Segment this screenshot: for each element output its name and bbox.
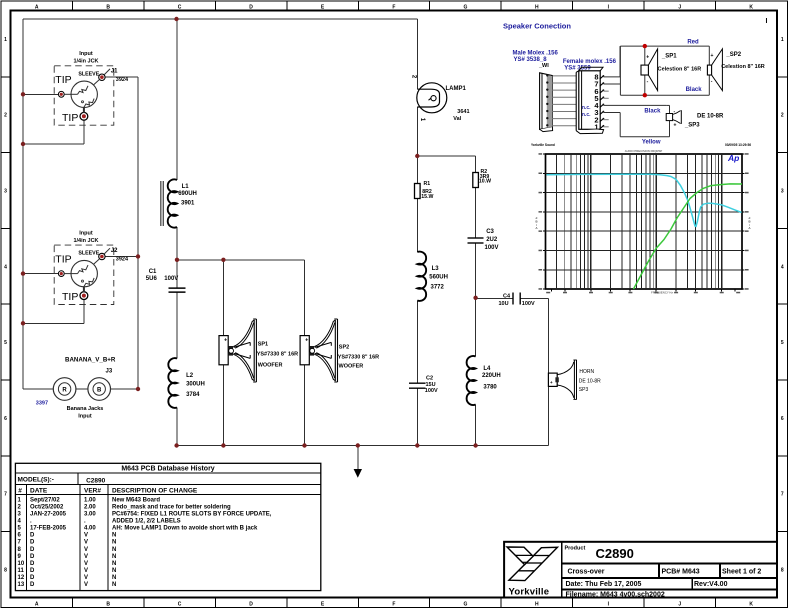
svg-text:C1: C1 (149, 269, 157, 275)
svg-text:G: G (463, 602, 467, 608)
svg-text:C3: C3 (486, 229, 494, 235)
svg-text:D: D (30, 547, 35, 553)
svg-text:B: B (97, 387, 102, 393)
svg-text:2: 2 (781, 113, 784, 119)
svg-text:Red: Red (687, 40, 699, 46)
svg-text:N: N (112, 582, 116, 588)
svg-text:+: + (550, 380, 553, 385)
svg-text:_WI: _WI (538, 63, 549, 69)
svg-text:7: 7 (781, 492, 784, 498)
svg-text:3780: 3780 (483, 385, 497, 391)
svg-text:LAMP1: LAMP1 (446, 86, 467, 92)
svg-text:-: - (711, 79, 713, 85)
svg-text:8: 8 (4, 568, 7, 574)
svg-text:10U: 10U (499, 301, 509, 307)
svg-text:B: B (106, 602, 110, 608)
svg-text:R: R (62, 387, 67, 393)
svg-text:V: V (84, 533, 88, 539)
svg-text:Input: Input (78, 414, 92, 420)
svg-text:4.00: 4.00 (84, 526, 96, 532)
svg-text:2: 2 (4, 113, 7, 119)
svg-text:3924: 3924 (116, 77, 129, 83)
svg-text:10.W: 10.W (479, 179, 491, 185)
svg-text:03/09/05 13:29:56: 03/09/05 13:29:56 (725, 143, 751, 147)
svg-text:4: 4 (781, 264, 784, 270)
svg-text:n.c.: n.c. (582, 112, 591, 118)
svg-text:DE 10-8R: DE 10-8R (579, 378, 601, 384)
svg-text:C: C (178, 4, 182, 10)
svg-text:Date: Thu Feb 17, 2005: Date: Thu Feb 17, 2005 (566, 581, 642, 588)
svg-text:E: E (321, 4, 325, 10)
svg-text:D: D (249, 602, 253, 608)
svg-text:8: 8 (781, 568, 784, 574)
svg-text:220UH: 220UH (482, 373, 501, 379)
svg-text:100V: 100V (164, 276, 178, 282)
svg-text:SP1: SP1 (258, 342, 268, 348)
svg-text:BANANA_V_B+R: BANANA_V_B+R (65, 356, 116, 363)
svg-text:2U2: 2U2 (486, 237, 498, 243)
svg-text:Yorkville Sound: Yorkville Sound (531, 143, 555, 147)
svg-text:7: 7 (4, 492, 7, 498)
svg-text:New M643 Board: New M643 Board (112, 497, 160, 503)
svg-text:TIP: TIP (62, 112, 78, 124)
svg-text:AH: Move LAMP1 Down to avoide: AH: Move LAMP1 Down to avoide short with… (112, 526, 258, 532)
svg-text:3784: 3784 (186, 392, 200, 398)
svg-text:TIP: TIP (62, 291, 78, 303)
svg-text:100V: 100V (485, 245, 499, 251)
svg-text:Sept/27/02: Sept/27/02 (30, 497, 60, 503)
svg-text:Input: Input (79, 51, 93, 57)
svg-text:1: 1 (594, 122, 598, 131)
svg-text:N: N (112, 568, 116, 574)
svg-text:5: 5 (4, 340, 7, 346)
svg-text:Female molex .156: Female molex .156 (563, 59, 617, 65)
svg-text:3: 3 (781, 189, 784, 195)
svg-text:17-FEB-2005: 17-FEB-2005 (30, 526, 67, 532)
svg-text:Input: Input (79, 230, 93, 236)
svg-text:D: D (30, 582, 35, 588)
svg-text:V: V (84, 568, 88, 574)
svg-text:Celestion 8" 16R: Celestion 8" 16R (658, 66, 702, 72)
svg-text:L4: L4 (483, 366, 491, 372)
svg-text:A: A (35, 602, 39, 608)
svg-text:A: A (535, 226, 537, 230)
svg-text:1: 1 (781, 37, 784, 43)
svg-text:1: 1 (419, 118, 425, 122)
svg-text:N: N (112, 554, 116, 560)
svg-text:V: V (84, 547, 88, 553)
svg-text:690UH: 690UH (178, 191, 197, 197)
svg-text:YS#7330 8" 16R: YS#7330 8" 16R (338, 355, 379, 361)
svg-text:I: I (608, 4, 610, 10)
svg-text:WOOFER: WOOFER (339, 364, 364, 370)
svg-text:+: + (711, 53, 714, 59)
svg-text:C4: C4 (503, 294, 511, 300)
svg-text:SLEEVE: SLEEVE (78, 251, 99, 257)
svg-text:AUDIO PRECISION FRQRSP: AUDIO PRECISION FRQRSP (625, 149, 663, 153)
svg-text:Black: Black (644, 108, 661, 114)
svg-text:C2890: C2890 (596, 546, 634, 561)
svg-text:13: 13 (18, 582, 25, 588)
svg-text:H: H (535, 602, 539, 608)
svg-text:Black: Black (686, 87, 703, 93)
svg-text:3901: 3901 (181, 200, 195, 206)
svg-text:J: J (678, 602, 681, 608)
svg-text:HORN: HORN (579, 369, 594, 375)
svg-text:K: K (749, 4, 753, 10)
svg-text:11: 11 (18, 568, 25, 574)
svg-text:Cross-over: Cross-over (568, 569, 605, 576)
svg-text:J1: J1 (111, 69, 118, 75)
svg-text:D: D (249, 4, 253, 10)
svg-text:Ap: Ap (727, 153, 739, 163)
svg-text:VER#: VER# (84, 488, 101, 495)
svg-text:I: I (608, 602, 610, 608)
svg-text:V: V (84, 540, 88, 546)
svg-text:F: F (392, 602, 395, 608)
svg-text:K: K (749, 602, 753, 608)
svg-text:PCB# M643: PCB# M643 (662, 569, 700, 576)
svg-text:Oct/25/2002: Oct/25/2002 (30, 504, 64, 510)
svg-text:G: G (463, 4, 467, 10)
svg-text:_SP2: _SP2 (725, 52, 741, 58)
svg-text:D: D (30, 554, 35, 560)
svg-text:D: D (30, 561, 35, 567)
svg-text:_SP1: _SP1 (661, 53, 677, 59)
svg-text:H: H (535, 4, 539, 10)
svg-text:Product: Product (565, 546, 586, 552)
svg-text:R1: R1 (424, 181, 431, 187)
svg-text:3.00: 3.00 (84, 511, 96, 517)
svg-text:+: + (674, 123, 677, 129)
svg-text:B: B (106, 4, 110, 10)
svg-text:D: D (30, 568, 35, 574)
svg-text:J3: J3 (106, 369, 113, 375)
svg-text:Redo_mask and trace for better: Redo_mask and trace for better soldering (112, 504, 231, 510)
svg-text:WOOFER: WOOFER (258, 362, 283, 368)
svg-text:300UH: 300UH (186, 382, 205, 388)
svg-text:Val: Val (453, 116, 461, 122)
svg-text:+: + (305, 338, 308, 344)
svg-text:JAN-27-2005: JAN-27-2005 (30, 511, 67, 517)
svg-text:#: # (18, 488, 22, 495)
svg-text:PC#6754: FIXED L1 ROUTE SLOTS: PC#6754: FIXED L1 ROUTE SLOTS BY FORCE U… (112, 511, 272, 517)
svg-text:560UH: 560UH (429, 275, 448, 281)
svg-text:n.c.: n.c. (582, 105, 591, 111)
svg-text:6: 6 (4, 416, 7, 422)
svg-text:6: 6 (781, 416, 784, 422)
svg-text:15.W: 15.W (421, 194, 433, 200)
svg-text:SP2: SP2 (339, 345, 349, 351)
svg-text:N: N (112, 547, 116, 553)
svg-text:V: V (84, 575, 88, 581)
svg-text:100V: 100V (522, 301, 535, 307)
svg-text:M643 PCB Database History: M643 PCB Database History (121, 465, 214, 472)
svg-text:Male Molex .156: Male Molex .156 (513, 50, 559, 56)
svg-text:C2: C2 (426, 375, 433, 381)
svg-text:C: C (178, 602, 182, 608)
svg-text:V: V (84, 561, 88, 567)
svg-text:TIP: TIP (55, 253, 71, 265)
svg-text:A: A (748, 226, 750, 230)
svg-text:A: A (35, 4, 39, 10)
svg-text:N: N (112, 575, 116, 581)
svg-text:Celestion 8" 16R: Celestion 8" 16R (721, 64, 765, 70)
svg-text:N: N (112, 540, 116, 546)
svg-text:1: 1 (4, 37, 7, 43)
svg-text:L1: L1 (182, 184, 190, 190)
svg-text:-: - (647, 79, 649, 85)
svg-text:+: + (224, 338, 227, 344)
svg-text:1/4in JCK: 1/4in JCK (73, 238, 98, 244)
svg-text:100V: 100V (425, 388, 438, 394)
svg-text:V: V (84, 554, 88, 560)
svg-text:Banana Jacks: Banana Jacks (67, 406, 104, 412)
svg-text:3772: 3772 (431, 284, 445, 290)
svg-text:DE 10-8R: DE 10-8R (697, 114, 724, 120)
svg-text:Yellow: Yellow (642, 139, 661, 145)
svg-text:Rev:V4.00: Rev:V4.00 (694, 581, 728, 588)
svg-text:D: D (30, 540, 35, 546)
svg-text:10: 10 (18, 561, 25, 567)
svg-text:MODEL(S):-: MODEL(S):- (18, 476, 54, 483)
svg-text:2.00: 2.00 (84, 504, 96, 510)
svg-text:ADDED 1/2, 2/2 LABELS: ADDED 1/2, 2/2 LABELS (112, 519, 181, 525)
svg-text:I: I (766, 18, 768, 25)
svg-text:D: D (30, 575, 35, 581)
svg-text:3641: 3641 (457, 109, 469, 115)
svg-text:V: V (84, 582, 88, 588)
svg-text:DATE: DATE (30, 488, 48, 495)
svg-text:SP3: SP3 (579, 387, 589, 393)
svg-text:YS#7330 8" 16R: YS#7330 8" 16R (257, 351, 298, 357)
svg-text:C2890: C2890 (86, 477, 106, 484)
svg-text:N: N (112, 533, 116, 539)
svg-text:+: + (646, 55, 649, 61)
svg-text:F: F (392, 4, 395, 10)
svg-text:J2: J2 (111, 248, 118, 254)
svg-text:SLEEVE: SLEEVE (78, 71, 99, 77)
svg-text:1/4in JCK: 1/4in JCK (73, 59, 98, 65)
svg-text:L3: L3 (432, 266, 440, 272)
svg-text:L2: L2 (186, 373, 194, 379)
svg-text:Sheet 1 of 2: Sheet 1 of 2 (722, 569, 761, 576)
svg-text:Yorkville: Yorkville (509, 587, 550, 598)
svg-text:E: E (321, 602, 325, 608)
svg-text:Filename: M643 4v00.sch2002: Filename: M643 4v00.sch2002 (566, 592, 665, 599)
svg-text:D: D (30, 533, 35, 539)
svg-text:3: 3 (4, 189, 7, 195)
svg-text:3397: 3397 (36, 400, 48, 406)
svg-text:5: 5 (781, 340, 784, 346)
svg-text:2: 2 (411, 75, 417, 79)
svg-text:DESCRIPTION OF CHANGE: DESCRIPTION OF CHANGE (112, 488, 198, 495)
svg-text:12: 12 (18, 575, 25, 581)
svg-text:5U6: 5U6 (146, 276, 158, 282)
svg-text:TIP: TIP (55, 74, 71, 86)
svg-text:15U: 15U (426, 382, 436, 388)
svg-text:_SP3: _SP3 (684, 123, 700, 129)
svg-text:J: J (678, 4, 681, 10)
svg-text:1.00: 1.00 (84, 497, 96, 503)
svg-text:3924: 3924 (116, 256, 129, 262)
svg-text:4: 4 (4, 264, 7, 270)
svg-text:N: N (112, 561, 116, 567)
svg-text:Speaker Conection: Speaker Conection (503, 22, 571, 31)
